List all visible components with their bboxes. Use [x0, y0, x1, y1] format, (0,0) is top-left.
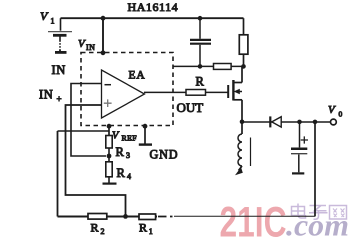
svg-text:V: V: [78, 38, 86, 50]
svg-text:GND: GND: [150, 148, 179, 162]
wire line A down to rail: [57, 131, 59, 217]
resistor R: [186, 90, 206, 96]
svg-text:2: 2: [101, 227, 105, 236]
wire output run to V0: [242, 121, 330, 123]
transistor Q1 MOSFET: [228, 66, 242, 122]
svg-text:IN: IN: [39, 88, 53, 102]
node junction V1/VIN on rail: [101, 16, 106, 21]
svg-text:HA16114: HA16114: [128, 0, 179, 14]
capacitor C2 output: [291, 122, 308, 173]
label IN+: [39, 88, 62, 105]
ground pin GND: [139, 124, 152, 145]
svg-text:V: V: [40, 9, 49, 23]
label R4: [117, 166, 132, 181]
resistor on pin B: [214, 64, 232, 70]
op-amp EA: [102, 70, 145, 118]
watermark dianziwang (drawn strokes): [292, 204, 347, 220]
svg-text:1: 1: [149, 227, 153, 236]
wire IN- input and feedback to R3/R4 node: [71, 84, 106, 157]
label R1: [139, 221, 153, 236]
label VREF: [112, 131, 137, 143]
svg-text:R: R: [196, 75, 205, 89]
resistor top-right (unlabeled): [239, 18, 248, 66]
svg-text:V: V: [328, 104, 336, 116]
IC HA16114 dashed box: [81, 53, 173, 126]
watermark .com: [286, 208, 349, 243]
capacitor C1: [190, 16, 211, 67]
svg-text:R: R: [116, 145, 125, 159]
wire EA output to gate: [144, 91, 228, 93]
svg-text:0: 0: [339, 110, 343, 119]
resistor R3: [106, 136, 112, 157]
label R3: [116, 145, 131, 160]
node dot drain branch: [241, 64, 246, 69]
diode D1: [270, 116, 281, 127]
svg-text:R: R: [91, 221, 99, 235]
svg-text:R: R: [117, 166, 126, 180]
svg-text:V: V: [112, 131, 120, 142]
resistor R1: [139, 214, 156, 220]
svg-text:4: 4: [127, 172, 131, 181]
battery B1: [48, 18, 72, 52]
watermark 21IC: [220, 199, 287, 247]
svg-text:R: R: [139, 221, 147, 235]
resistor R2: [88, 214, 107, 220]
svg-text:EA: EA: [129, 70, 146, 82]
svg-text:.com: .com: [286, 208, 349, 243]
label VIN: [78, 38, 95, 52]
wire VREF lead to R3: [108, 124, 110, 136]
label R2: [91, 221, 105, 236]
wire top supply rail: [61, 17, 244, 19]
svg-text:IN: IN: [52, 63, 66, 77]
node dot at right branch: [313, 120, 318, 125]
inductor L1: [235, 122, 251, 175]
svg-text:+: +: [57, 94, 62, 104]
node dot at source/inductor: [240, 120, 245, 125]
wire from line A to VREF lead: [58, 130, 110, 132]
wire VIN drop: [102, 18, 104, 53]
svg-text:3: 3: [126, 151, 130, 160]
svg-text:OUT: OUT: [177, 100, 204, 115]
wire right branch down: [314, 122, 316, 216]
svg-text:1: 1: [51, 17, 55, 26]
wire pin B from box to drain node: [173, 65, 244, 67]
wire IN+ input and feedback to R2/R1 node: [66, 105, 126, 217]
label V0: [328, 104, 343, 119]
svg-text:21IC: 21IC: [220, 199, 287, 247]
V_REF node: [107, 124, 112, 129]
svg-text:REF: REF: [122, 134, 138, 143]
resistor R4: [103, 156, 117, 184]
svg-text:IN: IN: [86, 43, 95, 52]
wire bottom rail: [58, 216, 158, 218]
node dot divider junction: [123, 214, 128, 219]
node R3/R4 junction: [107, 154, 112, 159]
node dot at C2: [297, 120, 302, 125]
node VIN pin dot: [101, 50, 106, 55]
label V1: [40, 9, 55, 26]
wire bottom rail dash-dot continuation: [158, 216, 173, 218]
terminal V0: [331, 119, 337, 125]
node dot cap branch: [198, 64, 203, 69]
